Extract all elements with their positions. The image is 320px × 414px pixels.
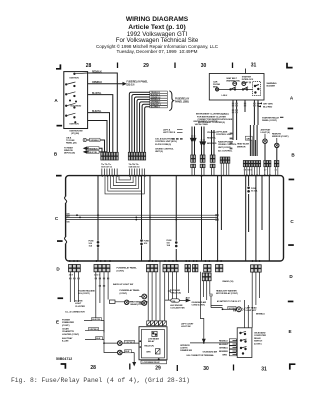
svg-text:CONTROL UNIT (ECU): CONTROL UNIT (ECU) bbox=[155, 141, 177, 143]
svg-text:S30: S30 bbox=[67, 221, 70, 223]
panel vertical wire x150 bbox=[149, 176, 151, 261]
svg-text:BLK/YEL: BLK/YEL bbox=[92, 111, 102, 113]
svg-text:ILLUM: ILLUM bbox=[62, 341, 69, 343]
svg-text:BLK/YEL: BLK/YEL bbox=[92, 319, 101, 321]
stacked connector tier X2 bbox=[202, 273, 211, 281]
wire colour labels centre bbox=[207, 132, 217, 145]
svg-text:BRN/BLU: BRN/BLU bbox=[256, 314, 265, 316]
svg-text:RED/BLU: RED/BLU bbox=[219, 340, 228, 342]
panel vertical wire x98 with fuse F1 bbox=[97, 176, 99, 261]
connector row group G bbox=[274, 161, 279, 167]
cluster wires with arrows bbox=[191, 127, 214, 158]
wire from circuit breaker A bbox=[87, 140, 105, 152]
svg-text:BLU RED: BLU RED bbox=[263, 106, 273, 108]
svg-text:WHT/BLK: WHT/BLK bbox=[229, 308, 238, 310]
svg-text:RELAY (E): RELAY (E) bbox=[171, 291, 181, 294]
svg-text:1 8 8 5 2 6: 1 8 8 5 2 6 bbox=[244, 170, 252, 172]
headlight relay box U2 bbox=[139, 327, 167, 360]
bus end terminals bbox=[215, 214, 218, 216]
connector row group F bbox=[264, 161, 271, 167]
connector block C6 below panel bbox=[216, 265, 223, 272]
wire GRY/BLU to lighter bbox=[85, 329, 104, 331]
svg-text:INSTRUMENT CLUSTER (A)(B)(C): INSTRUMENT CLUSTER (A)(B)(C) bbox=[196, 113, 229, 116]
connector block R1 below panel bbox=[251, 265, 262, 272]
svg-text:FUSE/RELAY PANEL: FUSE/RELAY PANEL bbox=[127, 81, 149, 84]
svg-text:AUX ENGINE: AUX ENGINE bbox=[170, 304, 183, 307]
bus junction dots bbox=[76, 214, 177, 220]
svg-text:SEAT BELT: SEAT BELT bbox=[226, 77, 237, 80]
svg-text:(CONT.): (CONT.) bbox=[62, 325, 70, 327]
wire from panel to dimmer arrow bbox=[200, 272, 203, 339]
stub wires row C to panel bbox=[192, 168, 214, 176]
svg-text:G.L. A CONNECTOR: G.L. A CONNECTOR bbox=[65, 311, 85, 314]
panel vertical wire x248.6 with fuse F4 bbox=[248, 176, 250, 232]
svg-text:CRUISE CONTROL: CRUISE CONTROL bbox=[155, 149, 174, 151]
svg-text:IGNITION: IGNITION bbox=[70, 124, 80, 126]
svg-text:PANEL (28B): PANEL (28B) bbox=[175, 101, 189, 104]
wire from relay box pin 1 bbox=[232, 100, 234, 140]
svg-text:(28) G.6: (28) G.6 bbox=[127, 85, 136, 87]
bus id labels bbox=[67, 214, 70, 224]
svg-text:S27: S27 bbox=[67, 216, 70, 218]
ash tray note bbox=[62, 337, 73, 343]
svg-text:RELAY: RELAY bbox=[148, 340, 155, 343]
svg-text:GRY/BLU: GRY/BLU bbox=[89, 329, 98, 331]
seat belt warning / starter interlock relay box U1 bbox=[209, 74, 264, 101]
inline connectors on mid-left wires bbox=[95, 278, 110, 287]
svg-text:28: 28 bbox=[86, 63, 92, 69]
wire left group down bbox=[70, 272, 78, 302]
svg-text:D: D bbox=[289, 274, 293, 279]
connector block L1 below panel bbox=[69, 265, 81, 277]
svg-text:LEFT A: LEFT A bbox=[163, 129, 171, 132]
svg-text:CONTROL UNIT: CONTROL UNIT bbox=[216, 134, 232, 136]
connector block C2 below panel bbox=[163, 265, 178, 272]
svg-text:ON-BOARD: ON-BOARD bbox=[254, 332, 266, 335]
wire BLK/YEL to stabilizer bbox=[84, 320, 104, 322]
svg-text:29: 29 bbox=[143, 63, 149, 69]
panel vertical wire x201.5 bbox=[201, 176, 203, 261]
connector block C4 below panel bbox=[193, 265, 198, 272]
svg-text:LIGHT MOT: LIGHT MOT bbox=[246, 310, 258, 312]
wire break symbol left edge lower bbox=[64, 237, 68, 244]
stub wires row A to panel bbox=[102, 169, 117, 176]
svg-text:G1/8 G1/7 G2: G1/8 G1/7 G2 bbox=[101, 166, 112, 168]
svg-text:BLK/YEL: BLK/YEL bbox=[89, 152, 98, 154]
wire from relay box pin 2 bbox=[236, 100, 238, 140]
buzzer lamp symbol bbox=[216, 88, 219, 91]
svg-text:BLU/YEL: BLU/YEL bbox=[92, 93, 102, 95]
svg-text:B: B bbox=[291, 153, 295, 158]
panel vertical wire x141.5 with fuse F2 bbox=[141, 176, 143, 261]
svg-text:SOL (CONT.): SOL (CONT.) bbox=[78, 293, 90, 295]
svg-text:C: C bbox=[55, 216, 59, 221]
svg-text:G2/4 G2/6 G3: G2/4 G2/6 G3 bbox=[129, 165, 140, 168]
svg-text:HEAT ELEM: HEAT ELEM bbox=[237, 143, 249, 146]
svg-text:BUZZER: BUZZER bbox=[267, 86, 276, 88]
on-board computer relay box U4 bbox=[237, 328, 252, 358]
panel vertical wire x176.25 with fuse F3 bbox=[175, 176, 177, 261]
wire BLK to ashtray lamps bbox=[85, 321, 118, 353]
svg-text:A: A bbox=[290, 96, 294, 101]
svg-text:BRN: BRN bbox=[223, 354, 228, 356]
headlight motor M1 bbox=[237, 307, 242, 312]
svg-text:LIGHT (9): LIGHT (9) bbox=[261, 132, 270, 134]
svg-text:31: 31 bbox=[261, 367, 267, 373]
svg-text:RELAY (F): RELAY (F) bbox=[144, 345, 154, 348]
interior lamp L7 bbox=[142, 301, 147, 306]
svg-text:LIGHTER (CONT.): LIGHTER (CONT.) bbox=[62, 334, 79, 336]
svg-text:ORN/BLK: ORN/BLK bbox=[92, 82, 102, 84]
svg-text:31: 31 bbox=[251, 63, 257, 69]
svg-text:C/B A: C/B A bbox=[66, 136, 72, 139]
left front speaker labels bbox=[163, 129, 176, 135]
svg-text:GRN/BLK: GRN/BLK bbox=[90, 140, 99, 142]
svg-text:UNIT (9): UNIT (9) bbox=[155, 151, 163, 153]
hatched multi-pin connector X1 bbox=[147, 321, 167, 326]
svg-text:RADIO (10): RADIO (10) bbox=[223, 280, 234, 283]
spoiler relay bracket label bbox=[168, 289, 170, 292]
panel vertical wire x245.7 bbox=[245, 176, 247, 261]
svg-text:LEFT FRO B: LEFT FRO B bbox=[163, 132, 176, 134]
svg-text:BLK: BLK bbox=[186, 297, 191, 299]
svg-text:BLK: BLK bbox=[96, 338, 101, 340]
wire RED/BLK bbox=[88, 73, 118, 152]
svg-text:LEFT/LANE: LEFT/LANE bbox=[216, 131, 228, 134]
internal bus wire 2 bbox=[66, 216, 218, 218]
svg-text:RED/BLK: RED/BLK bbox=[92, 71, 102, 73]
fuse/relay panel main bus outline bbox=[66, 176, 284, 261]
connector block C1 below panel bbox=[147, 265, 158, 272]
wire stub left A bbox=[177, 130, 183, 133]
wire break symbol left edge upper bbox=[64, 197, 68, 204]
svg-text:BLK/WHT: BLK/WHT bbox=[219, 344, 229, 346]
connector block C5 below panel bbox=[204, 265, 211, 272]
svg-text:3 1: 3 1 bbox=[275, 170, 277, 172]
stub to mirror lamp bbox=[276, 138, 278, 143]
svg-text:(CONT.): (CONT.) bbox=[117, 270, 125, 272]
ignition/starter switch S1 bbox=[64, 72, 88, 129]
internal bus wire 1 bbox=[66, 214, 218, 216]
svg-text:COND (CONT.): COND (CONT.) bbox=[192, 305, 206, 307]
svg-text:C: C bbox=[290, 219, 294, 224]
svg-text:14-PIN CONN: 14-PIN CONN bbox=[195, 123, 208, 126]
svg-text:GRN/BLU: GRN/BLU bbox=[219, 347, 228, 349]
svg-text:BLU/RED 1: BLU/RED 1 bbox=[151, 106, 160, 108]
svg-text:MOTOR RELAY (CONT.): MOTOR RELAY (CONT.) bbox=[216, 292, 238, 295]
connector row group E bbox=[243, 161, 260, 167]
svg-text:INSTRUMENT CLUSTER: INSTRUMENT CLUSTER bbox=[194, 121, 218, 123]
svg-text:UNIT (CONT.): UNIT (CONT.) bbox=[218, 147, 231, 149]
low beam relay label plate bbox=[141, 360, 167, 363]
wire ORN/BLK to fuse/relay panel bbox=[88, 83, 123, 85]
svg-text:30: 30 bbox=[203, 366, 209, 372]
switch contacts inside S1 bbox=[65, 73, 87, 123]
svg-text:CIGARETTE: CIGARETTE bbox=[62, 330, 75, 333]
svg-text:FOR INSTRUMENT CLUSTER: FOR INSTRUMENT CLUSTER bbox=[197, 116, 226, 118]
svg-text:BRN/RED: BRN/RED bbox=[207, 143, 217, 145]
svg-text:STARTER RELAY: STARTER RELAY bbox=[262, 116, 280, 119]
svg-text:A: A bbox=[54, 98, 58, 103]
connector block L2 below panel bbox=[94, 265, 110, 277]
svg-text:PANEL (28): PANEL (28) bbox=[66, 142, 77, 145]
boxed wire label GRY bbox=[245, 136, 252, 140]
wire from capsule to arrow bbox=[165, 299, 187, 301]
wires into relay U4 bbox=[233, 341, 238, 355]
wire W6 bbox=[280, 116, 283, 118]
svg-text:POWER: POWER bbox=[62, 320, 70, 322]
svg-text:FUSE/RELAY PANEL: FUSE/RELAY PANEL bbox=[117, 267, 138, 270]
console lamp L5 bbox=[118, 350, 123, 355]
svg-text:ON-BOARD AIR: ON-BOARD AIR bbox=[203, 351, 218, 354]
wire centre group down bbox=[148, 261, 160, 321]
right wire group five bbox=[250, 125, 257, 156]
svg-text:T/GATE RELEASE: T/GATE RELEASE bbox=[78, 289, 95, 292]
brace fuse/relay panel 28B bbox=[169, 91, 173, 111]
svg-text:B: B bbox=[54, 152, 58, 157]
connector row group B bbox=[128, 152, 145, 168]
svg-text:LEFT HEAD: LEFT HEAD bbox=[246, 307, 258, 310]
svg-text:D: D bbox=[56, 267, 60, 272]
wire from relay box pin 5 bbox=[257, 100, 259, 125]
svg-text:SOLENOID: SOLENOID bbox=[70, 106, 81, 108]
wire from relay box pin 3 bbox=[244, 100, 246, 112]
svg-text:BRN/RED: BRN/RED bbox=[219, 351, 228, 353]
svg-text:MIRROR: MIRROR bbox=[237, 146, 246, 148]
ashtray light L1 bbox=[263, 139, 267, 143]
svg-text:IGNITION: IGNITION bbox=[70, 78, 80, 80]
wire to connector row A bbox=[88, 121, 107, 153]
bracket wire pair to motor area bbox=[211, 296, 223, 308]
stub wires row B to panel bbox=[129, 169, 144, 176]
warning buzzer H1 dashed box bbox=[253, 82, 261, 96]
svg-text:LOW BEAM RELAY: LOW BEAM RELAY bbox=[143, 361, 161, 364]
svg-text:DEFOG (28): DEFOG (28) bbox=[64, 153, 75, 155]
left/lane control unit note bbox=[216, 131, 232, 137]
svg-text:WARNING: WARNING bbox=[267, 82, 277, 85]
svg-text:FUSE/RELAY PANEL: FUSE/RELAY PANEL bbox=[120, 289, 141, 292]
svg-text:RED/BLK: RED/BLK bbox=[89, 148, 98, 150]
svg-text:28: 28 bbox=[90, 365, 96, 371]
svg-text:S6 10A: S6 10A bbox=[251, 189, 258, 192]
connector row group C (cluster) bbox=[191, 155, 215, 168]
svg-text:TO REAR: TO REAR bbox=[64, 146, 73, 149]
wire BLU/YEL bbox=[88, 95, 113, 153]
svg-text:HEADLIGHT WASHER: HEADLIGHT WASHER bbox=[216, 289, 237, 292]
connector row group D bbox=[220, 157, 230, 163]
svg-text:ACTIVE: ACTIVE bbox=[75, 300, 83, 303]
relay K2 coil bbox=[242, 82, 246, 86]
interior lamp L6 bbox=[142, 294, 147, 299]
svg-text:(CONT.): (CONT.) bbox=[120, 293, 128, 295]
connector block C3 below panel bbox=[185, 265, 190, 272]
power stabilizer note bbox=[62, 320, 74, 327]
svg-text:50B04712: 50B04712 bbox=[56, 357, 72, 361]
relay K1 coil bbox=[233, 82, 237, 86]
crossover bundle inside panel bbox=[105, 176, 144, 194]
header title block bbox=[0, 16, 317, 23]
relay K3 inside U2 bbox=[152, 331, 157, 336]
svg-text:GRN: GRN bbox=[146, 351, 151, 353]
interior lights dimmer note bbox=[180, 345, 192, 352]
svg-text:CLUSTER: CLUSTER bbox=[75, 306, 85, 308]
svg-text:10A: 10A bbox=[167, 244, 171, 247]
ashtray illumination lamp L4 bbox=[118, 341, 123, 346]
panel vertical wire x255.9 bbox=[255, 176, 257, 261]
remote mirror lamp L2 bbox=[275, 143, 279, 147]
wire to rear window defogger bbox=[87, 148, 102, 152]
svg-text:SWITCH: SWITCH bbox=[254, 341, 263, 343]
contact dots on U2 edge bbox=[140, 340, 142, 342]
radio/power cruise note bbox=[218, 141, 237, 153]
svg-text:LIGHT SW: LIGHT SW bbox=[181, 326, 191, 328]
svg-text:STARTER: STARTER bbox=[242, 76, 252, 79]
svg-text:COMPUTER: COMPUTER bbox=[254, 335, 266, 337]
svg-text:A1 BATTERY TO THE 30 JCT: A1 BATTERY TO THE 30 JCT bbox=[217, 300, 242, 303]
svg-text:2 1 R: 2 1 R bbox=[69, 274, 74, 276]
svg-text:RED/YEL: RED/YEL bbox=[207, 138, 217, 140]
svg-text:STABILIZER: STABILIZER bbox=[62, 321, 74, 324]
ECU note bbox=[155, 138, 177, 154]
svg-text:10A: 10A bbox=[89, 245, 93, 248]
svg-text:L-BLU: L-BLU bbox=[222, 95, 228, 97]
svg-text:GRY GRN: GRY GRN bbox=[263, 103, 273, 105]
cigarette lighter note bbox=[62, 328, 79, 336]
wire from C3 bbox=[187, 272, 189, 293]
inline fuse capsule F5 bbox=[171, 299, 180, 302]
svg-text:REMOTE: REMOTE bbox=[272, 134, 281, 136]
auxiliary contact block inside U2 bbox=[155, 349, 160, 354]
active light cluster note bbox=[65, 300, 85, 314]
svg-text:GRY/BLU: GRY/BLU bbox=[125, 342, 134, 344]
svg-text:(CONT.): (CONT.) bbox=[254, 343, 262, 345]
svg-text:(27) (28): (27) (28) bbox=[71, 133, 79, 135]
svg-text:A/C CONTROL: A/C CONTROL bbox=[218, 150, 233, 153]
svg-text:ASHTRAY: ASHTRAY bbox=[261, 129, 271, 132]
svg-text:DIMMER SW: DIMMER SW bbox=[180, 350, 192, 352]
svg-text:E: E bbox=[56, 320, 59, 325]
svg-text:LOW BEAM: LOW BEAM bbox=[148, 338, 159, 341]
svg-text:MIRROR (CONT.): MIRROR (CONT.) bbox=[272, 136, 289, 138]
svg-text:4 3 2 1: 4 3 2 1 bbox=[94, 273, 99, 276]
svg-text:29: 29 bbox=[155, 366, 161, 372]
svg-text:G.B. CONNECTOR TERMINAL: G.B. CONNECTOR TERMINAL bbox=[186, 354, 214, 357]
connector stubs for control unit labels bbox=[230, 133, 233, 150]
panel vertical wire x221.4 bbox=[220, 176, 222, 230]
wire mid-left group down bbox=[96, 272, 108, 333]
headlight motor circuit bbox=[223, 308, 237, 310]
ECU connector stubs bbox=[172, 138, 183, 140]
svg-text:BLK: BLK bbox=[125, 351, 130, 353]
relay contact points bbox=[230, 87, 248, 90]
stub to ashtray lamp bbox=[264, 134, 266, 139]
wire labels right of relay connectors bbox=[258, 103, 262, 106]
svg-text:S18: S18 bbox=[144, 243, 148, 245]
panel vertical wire x262 bbox=[261, 176, 263, 230]
junction dots on panel top edge bbox=[101, 174, 270, 176]
figure caption bbox=[11, 377, 190, 384]
svg-text:E: E bbox=[288, 329, 291, 334]
wire right group to relay bbox=[252, 272, 259, 328]
svg-text:YEL/BLU: YEL/BLU bbox=[207, 132, 216, 134]
relay internal bus wire bbox=[219, 88, 253, 90]
svg-text:ASH TRAY: ASH TRAY bbox=[62, 337, 73, 340]
wire BLK/YEL bbox=[88, 113, 110, 153]
high/low beam lamp L3 bbox=[125, 300, 129, 304]
svg-text:20-PIN CONN (9): 20-PIN CONN (9) bbox=[155, 144, 171, 146]
panel vertical wire x217.6 bbox=[217, 176, 219, 261]
internal bus wire 3 bbox=[66, 219, 218, 221]
wire stub above relay box bbox=[245, 69, 247, 74]
svg-text:LIGHT: LIGHT bbox=[75, 303, 82, 305]
on-board computer note bbox=[254, 332, 266, 346]
svg-text:PANEL (CONT.): PANEL (CONT.) bbox=[262, 119, 277, 122]
instrument cluster note bbox=[196, 113, 233, 124]
inline connectors below relay box bbox=[232, 103, 259, 114]
svg-text:CIGAR: CIGAR bbox=[62, 328, 69, 331]
svg-text:COOLANT FAN: COOLANT FAN bbox=[170, 306, 185, 309]
svg-text:BACK-UP LIGHT SW: BACK-UP LIGHT SW bbox=[113, 283, 134, 286]
wire from relay box pin 4 bbox=[253, 100, 255, 125]
instrument cluster header note bbox=[194, 121, 218, 126]
high beam resistor block bbox=[110, 300, 116, 304]
connector row group A bbox=[101, 152, 118, 168]
wire bundle to fuse/relay panel 28B bbox=[129, 92, 149, 152]
svg-text:ON-BOARD AIR: ON-BOARD AIR bbox=[192, 301, 207, 304]
wire to on-board computer relay bbox=[190, 342, 229, 344]
svg-text:30: 30 bbox=[201, 63, 207, 69]
svg-text:4 7: 4 7 bbox=[264, 169, 266, 172]
bundle wire end connectors and labels bbox=[150, 91, 168, 108]
panel vertical wire x269.3 bbox=[268, 176, 270, 261]
svg-text:RELAY: RELAY bbox=[254, 337, 261, 340]
junction dots on panel bottom edge bbox=[69, 260, 261, 262]
svg-text:CRUISE CONTROL: CRUISE CONTROL bbox=[218, 144, 237, 146]
wires from stacked tier bbox=[204, 281, 210, 300]
